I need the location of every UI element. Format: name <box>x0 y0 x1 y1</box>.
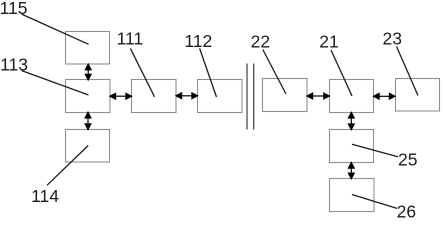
svg-text:26: 26 <box>397 202 416 221</box>
svg-text:115: 115 <box>0 0 28 18</box>
svg-text:25: 25 <box>398 149 417 169</box>
svg-text:21: 21 <box>319 31 338 51</box>
svg-text:114: 114 <box>31 186 59 206</box>
svg-text:22: 22 <box>251 32 270 52</box>
svg-text:111: 111 <box>117 29 144 49</box>
svg-text:113: 113 <box>0 55 28 75</box>
svg-text:112: 112 <box>184 31 212 51</box>
svg-text:23: 23 <box>383 28 402 48</box>
